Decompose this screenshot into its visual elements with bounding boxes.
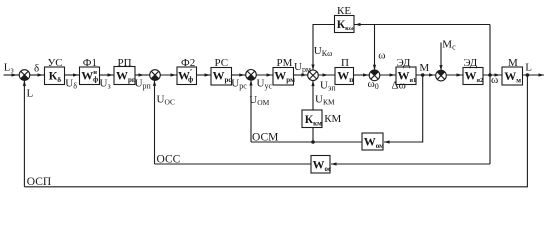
svg-text:Ф2: Ф2 <box>181 57 195 69</box>
node L dot <box>526 73 530 77</box>
block КЕ Ккω <box>335 16 355 33</box>
summing junction J4 <box>308 70 319 81</box>
arrowhead input <box>12 73 18 76</box>
wire РМ to J4 <box>294 74 308 76</box>
wire node ω vertical top to ОСС <box>489 25 491 165</box>
svg-text:ОСМ: ОСМ <box>252 131 278 143</box>
wire ОСС right from node ω to Wос <box>331 163 490 165</box>
arrowhead left into Wом <box>384 140 390 143</box>
wire М to output L <box>523 74 545 76</box>
wire input Lз <box>4 74 20 76</box>
wire node L down to ОСП <box>24 75 527 187</box>
svg-text:L: L <box>27 88 34 100</box>
arrowhead Uкω down into J4 <box>311 65 314 71</box>
wire П to J5 <box>354 74 370 76</box>
wire J4 to П <box>318 74 335 76</box>
svg-text:П: П <box>341 57 349 69</box>
wire J3 to РМ <box>256 74 273 76</box>
arrowhead into J4 <box>301 73 307 76</box>
block ЭД2 Wя2 <box>463 68 483 85</box>
arrowhead into J3 <box>239 73 245 76</box>
wire РС to J3 <box>232 74 246 76</box>
svg-text:δ: δ <box>34 62 39 74</box>
wire Ф2 to РС <box>197 74 212 76</box>
wire Uкω vertical into J4 top <box>313 25 335 71</box>
arrowhead into РП <box>108 73 114 76</box>
block Ф1 Wфи <box>80 67 100 85</box>
arrowhead into Ф1 <box>73 73 79 76</box>
block КМ Ккм <box>302 110 322 128</box>
arrowhead into П <box>323 73 329 76</box>
node ОСМ-КМ junction dot <box>311 140 315 144</box>
arrowhead into Ф2 <box>171 73 177 76</box>
svg-text:ЭД: ЭД <box>463 57 477 69</box>
arrowhead Uкм up into J4 <box>311 81 314 87</box>
svg-text:М: М <box>508 57 518 69</box>
summing junction J2 <box>150 70 161 81</box>
arrowhead into ЭД1 <box>390 73 396 76</box>
svg-text:М: М <box>419 62 429 74</box>
arrowhead into J6 <box>429 73 435 76</box>
svg-text:ω: ω <box>378 49 385 61</box>
wire ЭД1 to J6 through node М <box>416 74 436 76</box>
arrowhead into ЭД2 <box>457 73 463 76</box>
wire Uом vertical into J3 <box>250 80 252 142</box>
svg-text:ЭД: ЭД <box>397 57 411 69</box>
svg-text:ОСП: ОСП <box>27 176 51 188</box>
wire КЕ input from top line <box>354 24 490 26</box>
summing junction J5 <box>369 70 380 81</box>
wire Uкм КМ block to J4 <box>312 81 314 110</box>
svg-text:W′ф: W′ф <box>178 67 193 83</box>
arrowhead ω down into J5 <box>373 65 376 71</box>
block Wом <box>362 133 383 150</box>
wire ОСС left from Wос to J2 <box>155 163 312 165</box>
block М Wм <box>502 67 523 85</box>
svg-text:Wиф: Wиф <box>81 68 98 83</box>
svg-text:ω: ω <box>491 74 498 86</box>
block Ф2 Wф' <box>177 67 197 85</box>
svg-text:L: L <box>525 62 532 74</box>
wire РП to J2 <box>135 74 150 76</box>
arrowhead δ into УС <box>38 73 44 76</box>
summing junction J1 <box>19 70 30 81</box>
arrowhead Мс down into J6 <box>439 65 442 71</box>
arrowhead L up into J1 <box>23 80 26 86</box>
node М dot <box>421 73 425 77</box>
block П Wп <box>335 68 354 85</box>
block РП Wрп <box>114 67 135 85</box>
wire Мс into J6 <box>440 43 442 71</box>
wire J2 to Ф2 <box>160 74 177 76</box>
wire J5 to ЭД1 <box>380 74 396 76</box>
wire УС to Ф1 <box>65 74 80 76</box>
arrowhead left into Wос <box>331 162 337 165</box>
arrowhead into РМ <box>267 73 273 76</box>
svg-text:КМ: КМ <box>324 113 341 125</box>
svg-text:РП: РП <box>118 57 132 69</box>
svg-text:РМ: РМ <box>277 57 293 69</box>
wire Ф1 to РП <box>100 74 115 76</box>
svg-text:РС: РС <box>215 57 229 69</box>
svg-text:КЕ: КЕ <box>337 5 351 17</box>
wire ОСМ left from Wом to J3 <box>251 141 362 143</box>
arrowhead into J5 <box>363 73 369 76</box>
wire ОСМ junction to КМ block <box>312 128 314 143</box>
svg-text:Ф1: Ф1 <box>83 57 97 69</box>
arrowhead left into КЕ <box>355 23 361 26</box>
arrowhead into РС <box>205 73 211 76</box>
svg-text:УС: УС <box>48 57 63 69</box>
wire ω branch into J5 <box>374 25 376 71</box>
arrowhead into J2 <box>139 73 145 76</box>
arrowhead Uом up into J3 <box>249 80 252 86</box>
arrowhead output L <box>539 73 545 76</box>
block УС Кδ <box>45 67 65 85</box>
wire ЭД2 to М through node ω <box>483 74 502 76</box>
block РС Wрс <box>211 68 232 86</box>
wire node М down to ОСМ <box>384 75 423 142</box>
wire Uос vertical into J2 <box>154 80 156 164</box>
wire J1 to УС <box>30 74 45 76</box>
arrowhead into М block <box>495 73 501 76</box>
svg-text:ОСС: ОСС <box>157 154 181 166</box>
summing junction J3 <box>246 70 257 81</box>
summing junction J6 <box>436 70 447 81</box>
wire L feedback vertical into J1 <box>23 80 25 186</box>
arrowhead Uос up into J2 <box>153 80 156 86</box>
block ЭД1 Wя1 <box>396 67 416 85</box>
block РМ Wрм <box>273 68 294 86</box>
block Wос <box>311 156 330 174</box>
wire J6 to ЭД2 <box>446 74 463 76</box>
node ω dot <box>488 73 492 77</box>
